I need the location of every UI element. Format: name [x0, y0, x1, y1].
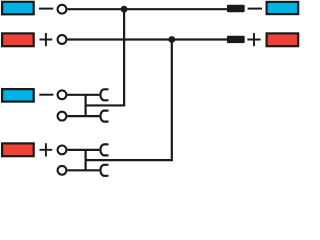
wire row3 to socket	[67, 94, 99, 96]
socket contact row6	[100, 165, 107, 176]
plus sign row2 right	[247, 33, 260, 46]
terminal circle row4	[58, 112, 67, 121]
wire row4 to socket	[67, 115, 99, 117]
minus sign row1 left	[39, 8, 53, 10]
commoning bar group A	[84, 95, 86, 116]
commoning bar group B	[84, 150, 86, 170]
terminal circle row5	[58, 146, 67, 155]
polarity marker (blue) right row1	[267, 2, 299, 14]
plus sign row2 left	[40, 33, 53, 46]
terminal circle row2	[58, 35, 67, 44]
polarity marker (red) left row5	[2, 143, 34, 156]
socket contact row4	[100, 111, 107, 122]
wire row1 horizontal	[67, 8, 227, 10]
polarity marker (red) right row2	[267, 33, 299, 46]
wire row2 horizontal	[67, 38, 227, 40]
plus sign row5	[40, 143, 53, 156]
socket contact row3	[100, 89, 107, 100]
fuse link F1 row1	[227, 5, 245, 12]
junction node row1	[121, 6, 128, 13]
wire row6 to socket	[67, 169, 99, 171]
wire riser from row2 junction down and left to group B bar	[86, 40, 172, 161]
minus sign row3	[39, 94, 53, 96]
terminal circle row3	[58, 90, 67, 99]
polarity marker (red) left row2	[2, 33, 34, 46]
polarity marker (blue) left row3	[2, 89, 34, 102]
fuse link F2 row2	[227, 36, 245, 43]
socket contact row5	[100, 144, 107, 155]
junction node row2	[168, 36, 175, 43]
wire row5 to socket	[67, 149, 99, 151]
terminal circle row1	[58, 5, 67, 14]
wire riser from row1 junction down and left to group A bar	[86, 9, 125, 105]
minus sign row1 right	[248, 8, 262, 10]
polarity marker (blue) left row1	[2, 2, 34, 15]
terminal circle row6	[58, 166, 67, 175]
